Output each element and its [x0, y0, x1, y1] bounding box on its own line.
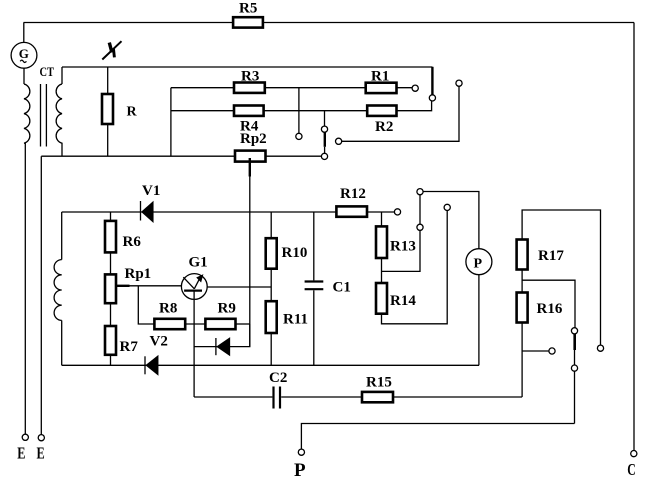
- resistor R1 box: [366, 83, 397, 93]
- wire C2R15 row: [194, 396, 272, 398]
- wire Rp2 right lead: [266, 155, 322, 157]
- svg-text:C2: C2: [269, 370, 287, 386]
- wire R11 bottom lead: [270, 333, 272, 365]
- wire R10-R11: [270, 269, 272, 302]
- svg-text:C: C: [627, 460, 636, 479]
- wire top bus: [24, 22, 635, 24]
- wire R4-R2 row: [171, 110, 397, 112]
- svg-text:R10: R10: [282, 245, 308, 261]
- wire R6 top lead: [110, 212, 112, 221]
- switch circle A: [321, 126, 327, 132]
- wire R2 right hook: [397, 101, 432, 111]
- svg-text:G: G: [19, 46, 29, 61]
- wire R16-R17: [521, 270, 523, 293]
- switch blade from bus: [431, 67, 433, 95]
- wire R13 top lead: [381, 212, 383, 226]
- resistor R2 box: [367, 106, 396, 116]
- diode V1: [140, 201, 142, 221]
- switch contact circle: [429, 95, 435, 101]
- resistor R3 box: [234, 83, 265, 93]
- wire G top lead: [23, 23, 25, 43]
- svg-text:E: E: [37, 444, 45, 463]
- wire P row: [301, 424, 574, 450]
- svg-text:E: E: [17, 444, 25, 463]
- diode V3 unnamed: [215, 338, 217, 355]
- resistor R5 box: [233, 17, 263, 27]
- Rp1 wiper: [116, 285, 130, 287]
- wire R16R17 column top: [521, 323, 523, 398]
- wire P meter bottom: [478, 275, 480, 366]
- svg-text:R16: R16: [537, 301, 563, 317]
- wire R8 left leg: [138, 286, 154, 324]
- resistor R17 box: [517, 240, 528, 270]
- switch circle top x574: [571, 328, 577, 334]
- transformer core: [40, 84, 42, 147]
- wire to P meter: [423, 192, 479, 249]
- resistor R9 box: [205, 319, 235, 329]
- svg-text:R15: R15: [366, 375, 392, 391]
- svg-text:R6: R6: [123, 234, 142, 250]
- wire R10 top lead: [270, 212, 272, 238]
- wire secondary top lead: [61, 67, 63, 84]
- wire bus y67: [62, 66, 432, 68]
- switch blade Rp2: [324, 132, 326, 146]
- svg-text:CT: CT: [40, 64, 55, 79]
- wire switch down: [574, 371, 576, 423]
- wire R9 right lead: [236, 323, 250, 325]
- transformer CT secondary coil: [56, 84, 62, 156]
- wire G bottom lead: [23, 68, 25, 84]
- wire R3 tap down: [298, 88, 300, 134]
- wire primary down to E1: [24, 143, 26, 434]
- wire G1 base down: [193, 291, 195, 397]
- resistor R6 box: [105, 221, 116, 253]
- terminal C circle: [631, 451, 637, 457]
- capacitor C2: [272, 387, 274, 409]
- terminal circle x600: [597, 345, 603, 351]
- generator G1 circle: [11, 42, 37, 68]
- svg-text:R7: R7: [120, 339, 139, 355]
- switch circle B: [321, 153, 327, 159]
- wire between circles x420: [419, 195, 421, 224]
- resistor R8 box: [154, 319, 185, 329]
- terminal E2 circle: [38, 435, 44, 441]
- wire Rp1-R7: [110, 303, 112, 326]
- terminal circle R3 tap: [296, 133, 302, 139]
- resistor R13 box: [376, 226, 387, 258]
- meter P circle: [466, 249, 492, 275]
- svg-text:R: R: [127, 105, 138, 120]
- resistor R vertical box: [102, 94, 113, 124]
- resistor R4 box: [234, 106, 264, 116]
- wire R8-R9: [185, 323, 205, 325]
- terminal circle right of R12: [394, 209, 400, 215]
- resistor R14 box: [376, 283, 387, 314]
- wire main row y212: [62, 211, 337, 213]
- svg-text:R9: R9: [218, 301, 236, 317]
- svg-text:R3: R3: [241, 68, 259, 84]
- svg-text:G1: G1: [189, 255, 208, 271]
- wire R16 tap terminal: [522, 350, 549, 352]
- svg-text:P: P: [474, 257, 483, 272]
- svg-text:R13: R13: [390, 239, 416, 255]
- wire R13-R14: [381, 258, 383, 283]
- wire diode3 row: [194, 324, 250, 347]
- resistor R15 box: [362, 392, 393, 402]
- svg-text:R14: R14: [390, 293, 416, 309]
- wire R17 top bridge: [522, 210, 600, 345]
- terminal circle C2sw: [336, 138, 342, 144]
- svg-text:R5: R5: [239, 1, 257, 17]
- wire tap R17R16 to switch: [522, 280, 575, 327]
- wire E2 vertical: [40, 156, 42, 434]
- svg-text:Rp2: Rp2: [240, 131, 267, 147]
- svg-text:R11: R11: [283, 311, 308, 327]
- wire bottom rail y364: [62, 364, 479, 366]
- switch circle bottom x574: [571, 365, 577, 371]
- svg-text:R17: R17: [538, 248, 564, 264]
- wire R top lead: [107, 67, 109, 94]
- Rp2 wiper: [249, 158, 251, 177]
- wire R4 tap down: [324, 111, 326, 126]
- wire R6-Rp1: [110, 252, 112, 274]
- wire G1 collector right: [207, 286, 271, 288]
- terminal circle right of R1: [412, 85, 418, 91]
- potentiometer Rp2 box: [235, 151, 266, 162]
- svg-text:V1: V1: [142, 183, 160, 199]
- wire R7 bottom lead: [110, 355, 112, 366]
- transistor G1: [181, 274, 207, 300]
- capacitor C1: [313, 212, 315, 280]
- svg-text:P: P: [294, 460, 306, 481]
- transformer CT primary coil: [24, 84, 30, 143]
- terminal P circle: [298, 449, 304, 455]
- wire right border down to C: [633, 23, 635, 451]
- svg-text:Rp1: Rp1: [125, 266, 152, 282]
- wire R15 right to column: [393, 396, 522, 398]
- terminal circle top right switch: [456, 80, 462, 86]
- resistor R10 box: [266, 238, 277, 269]
- terminal E1 circle: [22, 434, 28, 440]
- wire from circle C to right: [342, 86, 459, 141]
- svg-text:R12: R12: [340, 186, 366, 202]
- svg-text:C1: C1: [333, 279, 351, 295]
- terminal circle x447: [444, 204, 450, 210]
- resistor R7 box: [105, 326, 116, 355]
- switch circle upper x420: [417, 189, 423, 195]
- resistor R12 box: [336, 206, 367, 216]
- wire R3-R1 row: [171, 87, 412, 89]
- diode V2: [144, 356, 146, 374]
- svg-text:R2: R2: [375, 119, 393, 135]
- label N symbol: [102, 41, 121, 59]
- terminal circle x552: [549, 348, 555, 354]
- inductor left coil: [61, 212, 63, 260]
- switch circle lower x420: [417, 224, 423, 230]
- potentiometer Rp1 box: [105, 274, 116, 303]
- wire R12 right lead: [367, 211, 394, 213]
- svg-text:R8: R8: [159, 301, 177, 317]
- resistor R16 box: [517, 293, 528, 323]
- resistor R11 box: [266, 301, 277, 333]
- svg-text:R1: R1: [371, 68, 389, 84]
- wire R3R4 left vertical: [170, 88, 172, 157]
- switch blade x574: [573, 334, 576, 350]
- wire R13R14 tap right: [382, 231, 421, 272]
- wire R14 bottom lead: [382, 211, 448, 324]
- svg-text:V2: V2: [150, 334, 168, 350]
- wire bus y156: [41, 155, 235, 157]
- wire R bottom lead: [107, 124, 109, 156]
